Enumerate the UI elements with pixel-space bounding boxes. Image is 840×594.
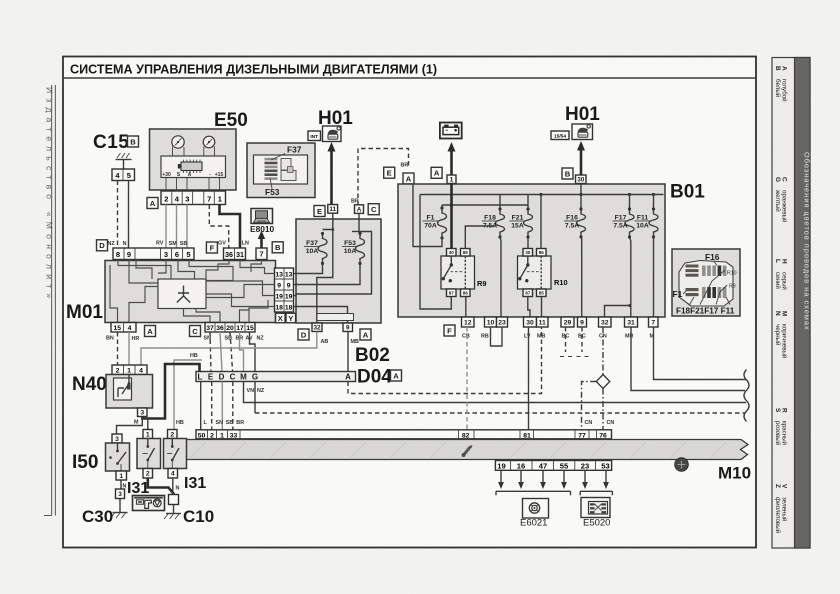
- B01 bottom pin 7: [649, 317, 659, 327]
- fuse module bottom pin 32: [312, 323, 322, 332]
- B01 bottom pin 29: [561, 317, 574, 327]
- fuse module wire pin11 to pin 32: [317, 230, 333, 324]
- switch I31 right body: [164, 439, 187, 469]
- fuse F16 7.5A: [580, 184, 582, 210]
- B01 bottom pin 23: [497, 317, 508, 327]
- B01 bottom pin 9: [578, 317, 587, 327]
- wire RV E50-2 to M01-3: [165, 205, 167, 249]
- F16 inset panel outline: [679, 261, 733, 307]
- H01 right 15/54 code box: [551, 131, 569, 140]
- battery symbol: [440, 123, 462, 139]
- wire AV M01-17 to D04-M: [240, 332, 244, 372]
- connector code box X: [276, 313, 286, 323]
- connector code box D at M01 top: [97, 240, 108, 251]
- arrows from M10 pins to E5020: [584, 470, 586, 483]
- connector code box F at M01 top: [206, 242, 217, 253]
- fuse F37 10A: [318, 234, 327, 264]
- I31 left bottom pin 2: [143, 469, 153, 479]
- wire F37 to M01 pin 13 row: [296, 264, 323, 274]
- fuse module body with F37 F53: [296, 219, 381, 323]
- wire N40-3 to D04-L thick: [142, 364, 199, 419]
- relay R10: [518, 256, 552, 289]
- wire VN bus from D04-M: [244, 382, 747, 403]
- wire LV B01-30 to M10-81: [528, 327, 530, 430]
- switch I50 body: [106, 443, 130, 471]
- F16 inset upper fuse bars: [686, 265, 699, 268]
- M01 top pin 7: [256, 248, 267, 260]
- wire BC stub B01-29: [565, 327, 567, 352]
- fuse module bottom slot: [317, 314, 354, 321]
- connector code box F at B01 bottom: [444, 325, 455, 336]
- B01 bottom pin 30: [524, 317, 537, 327]
- connector code box A above B01 left entry: [403, 173, 414, 184]
- N40 bottom pin 3: [138, 408, 148, 417]
- wire F21 to relay R10 pin 30: [527, 237, 529, 249]
- wire L D04 to M10 pin 50: [200, 382, 202, 432]
- connector strip D04: [196, 372, 356, 382]
- wire F53 to M01 pin 9 row: [296, 264, 360, 285]
- arrow from M01-7 to E8010: [260, 237, 263, 249]
- E50 IC chip: [181, 162, 202, 171]
- main frame: [63, 57, 756, 548]
- M01 glow plug symbol: [177, 286, 190, 303]
- sensor E6021 icon: [523, 499, 549, 519]
- relay R9: [441, 256, 475, 289]
- wire CN diamond to M10-76: [602, 389, 604, 430]
- connector code box E at fuse module: [314, 206, 325, 217]
- wire from B01 pin 30 up to H01 right with arrow: [580, 148, 583, 175]
- M01 top pin strip 8 9 3 6 5: [113, 248, 194, 260]
- diagnostic socket E8010 icon: [251, 209, 273, 224]
- fuse F1 70A: [441, 205, 443, 208]
- spine rule lines: [51, 85, 53, 516]
- wire SB D04 to M10 pin 1: [221, 382, 223, 432]
- wire NZ dashed bus from D04-G: [254, 382, 256, 414]
- fuse F53 10A: [359, 232, 361, 234]
- title bar: [63, 77, 756, 79]
- wire BR M01-20 to D04-C dashed: [230, 332, 233, 372]
- connector code box A below fuse module: [360, 329, 371, 340]
- M01 internal wiring: [118, 260, 171, 280]
- wire N I31 right pin4 down: [172, 478, 174, 495]
- connector code box A at E50: [147, 198, 158, 209]
- paper grain overlay: [0, 0, 1, 1]
- heater E5020 icon: [581, 498, 610, 518]
- I31 right top pin 2: [168, 430, 178, 439]
- M01 inner module: [158, 279, 206, 309]
- wire NZ M01-15 to D04-G: [250, 332, 256, 372]
- screen/antenna symbol above C15: [123, 160, 125, 169]
- I31 left top pin 1: [143, 430, 153, 439]
- connector code box D below fuse module: [298, 329, 309, 340]
- M01 right pin column 13 9 19 18: [275, 268, 294, 312]
- C30 pin 3: [116, 489, 125, 499]
- arrows from M10 pins to E6021: [500, 470, 502, 483]
- fuse module bottom pin 9: [343, 323, 353, 332]
- B01 bottom pin 32: [599, 317, 612, 327]
- diamond junction: [596, 375, 610, 389]
- wire MR B01-31 to right edge: [631, 327, 745, 391]
- fuse module top pin A: [355, 205, 364, 214]
- E50 pin stubs: [165, 178, 167, 192]
- wire M01 pin 18 row to fuse module pin 9: [296, 307, 348, 324]
- wire N40-3 to I31 left pin 1: [147, 419, 149, 430]
- wire HB to I31 right pin 2: [174, 360, 202, 430]
- fuse module top pin 11: [328, 205, 338, 214]
- engine ECU M01 body: [105, 261, 276, 323]
- connector C15 pin box 4|5: [112, 169, 135, 181]
- F16 inset lower fuse bars: [686, 288, 699, 291]
- I50 top pin 3: [112, 434, 122, 443]
- connector code box B at M01 top: [272, 242, 283, 253]
- wire BR D04 to M10 pin 33 dashed: [232, 382, 234, 432]
- bolt icon on M10: [675, 458, 689, 472]
- wire RB loop B01 pins 10 23: [491, 327, 503, 346]
- wire F17 down to B01 pin 31: [630, 237, 631, 317]
- wire N I50 to ground C30: [120, 480, 122, 489]
- B01 bottom pin 12: [462, 317, 475, 327]
- connector code box C: [368, 204, 379, 215]
- connector code box A at battery pin 1: [431, 167, 442, 178]
- I31 right bottom pin 4: [168, 469, 178, 479]
- B01 internal main bus: [420, 194, 664, 196]
- fuse F21 15A: [527, 195, 529, 210]
- dashed wire BR loop connector E: [358, 149, 409, 214]
- wire NZ from C15-4 to M01-8: [117, 181, 119, 249]
- wire SN D04 to M10 pin 2 dashed: [211, 382, 213, 432]
- C10 junction box: [169, 495, 179, 505]
- pin 1 battery feed into B01: [447, 175, 456, 184]
- B01 bottom pin 31: [625, 317, 638, 327]
- ground C30: [113, 512, 128, 514]
- pin 30 of B01 to H01: [576, 175, 587, 184]
- switch I31 left body: [137, 439, 161, 469]
- M01 top pin strip 36 31: [224, 248, 246, 260]
- H01 left icon box: [323, 126, 342, 142]
- switch N40 body: [106, 375, 153, 409]
- wire BC stub B01-9: [581, 327, 583, 352]
- engine harness bar M10: [186, 440, 748, 460]
- E50 gauge leads: [172, 147, 174, 157]
- wire R10-86 riser to main bus: [540, 195, 542, 249]
- inset relay rectangles: [281, 159, 291, 171]
- wire M N40-3 to I50-3: [117, 417, 143, 435]
- M01 bottom pin strip 37 36 20 17 15: [205, 323, 255, 333]
- connector code box B at C15: [128, 136, 139, 147]
- fuse location inset F16: [672, 249, 740, 316]
- M01 bottom pin strip 15 4: [111, 323, 136, 333]
- fuse location inset box F37/F53: [247, 143, 315, 198]
- wire colour legend sidebar: [772, 58, 810, 549]
- connector code box A below M01: [145, 326, 156, 337]
- E50 connector strip pins 2 4 3 7 1: [161, 191, 226, 205]
- H01 right icon box: [572, 124, 593, 140]
- harness break wavy line at right edge: [744, 370, 749, 422]
- wire SM E50-4 to M01-6: [176, 205, 178, 249]
- screw icon in M10 bar: [464, 447, 471, 455]
- inset leader lines: [271, 154, 285, 161]
- wire SN M01-37 to D04-E dashed: [210, 332, 211, 372]
- wire battery to B01 pin 1 with arrow: [450, 149, 453, 175]
- connector code box B at pin 30: [562, 168, 573, 179]
- wire SB M01-36 to D04-D: [220, 332, 222, 372]
- N40 switch symbol: [128, 375, 130, 384]
- B01 wire F1 bottom to connector A entry: [413, 184, 442, 247]
- connector code box Y: [286, 313, 296, 323]
- N40 top pins 2 1 4: [112, 365, 147, 375]
- wire B01 pin 32 internal branch: [605, 306, 630, 318]
- wire R10-87 down to B01 pin 30: [528, 297, 530, 318]
- fuse and relay box B01 body: [398, 184, 665, 317]
- E50 gauge 1: [172, 136, 184, 148]
- B01 battery rail down to relay R9 pin 30: [450, 184, 453, 249]
- M10 top pin strip 50 2 1 33 82 81 77 76: [196, 430, 612, 439]
- wire F16 down to B01 pin 9: [581, 237, 583, 317]
- fuse F18 7.5A: [499, 195, 501, 210]
- connector code box A at D04: [391, 370, 402, 381]
- wire I31 left pin2 to C10 node: [148, 478, 174, 495]
- connector code box E: [384, 167, 395, 178]
- M10 bottom pin strip 19 16 47 55 23 53: [495, 461, 611, 471]
- wire AB fuse module pin32 to N40 pin 4: [141, 332, 317, 366]
- wire N from C15-5 to M01-9: [128, 181, 130, 249]
- wire HR M01-4 to N40-1: [128, 332, 130, 365]
- wire BN M01-15 to N40-2 dashed: [117, 332, 119, 365]
- wire GV E50-7 to M01-36 dashed: [209, 205, 228, 249]
- E50 gauge 2: [203, 136, 215, 148]
- wire CN B01-32 to diamond junction: [602, 327, 604, 376]
- inset fuse column: [265, 158, 278, 161]
- wire CB B01-12 to M10-82 dashed: [466, 327, 468, 430]
- wire R9-85 up to F18 branch: [465, 226, 496, 249]
- wire M B01-7 to right edge: [654, 327, 747, 380]
- fuse module internal wiring to F37: [323, 213, 333, 229]
- wire F18 down to B01 pin 23: [500, 237, 501, 317]
- instrument cluster E50 body: [150, 129, 237, 190]
- I31 connector icon box: [133, 496, 165, 511]
- wire R9-86 down to B01 pin 12: [465, 297, 467, 318]
- wire from fusebox pin 11 up to H01 left with arrow: [330, 149, 333, 212]
- wire F11 down to B01 pin 7: [653, 237, 655, 317]
- wire MB fuse module pin9 to D04-A: [347, 332, 349, 372]
- ground C10: [166, 513, 181, 515]
- wire LN E50-1 to M01-31: [220, 205, 241, 249]
- wire CN diamond to M10-77: [582, 382, 597, 430]
- B01 main bus left leg to relay R9 pin 87: [420, 195, 451, 310]
- I50 bottom pin 1: [116, 471, 127, 480]
- fuse F11 10A: [653, 195, 655, 210]
- fuse module wire pin A to F53 and row 19: [296, 213, 372, 294]
- wire SB E50-3 to M01-5: [186, 205, 188, 249]
- B01 bottom pin 10: [485, 317, 497, 327]
- H01 left INT code box: [308, 131, 321, 141]
- wire R10-85 down to B01 pin 11: [541, 297, 543, 318]
- B01 internal second bus: [442, 204, 528, 206]
- wire MB dashed D04-A to B01 pin 11: [348, 327, 542, 394]
- fuse F17 7.5A: [629, 195, 631, 210]
- B01 bottom pin 11: [537, 317, 549, 327]
- E50 inner board: [161, 156, 226, 178]
- connector code box C below M01: [190, 326, 201, 337]
